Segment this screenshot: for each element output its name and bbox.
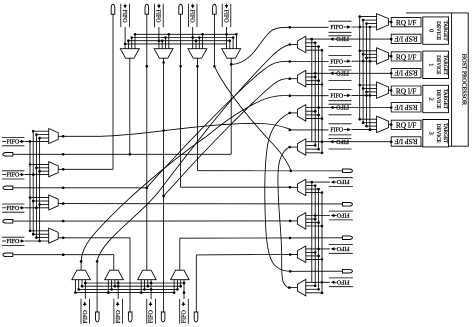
right mux Q2 (4:1, left) xyxy=(297,246,305,263)
right port 1 request FIFO (rotated) xyxy=(329,210,353,212)
bottom mux B3 (4:1, up) xyxy=(171,270,190,280)
FIFO R3 output wire to RQ mux xyxy=(352,129,377,131)
host processor box xyxy=(452,13,469,146)
svg-text:1: 1 xyxy=(428,63,435,66)
svg-text:RQ I/F: RQ I/F xyxy=(396,87,416,96)
net row: left mux L3 to bottom pin1 xyxy=(58,237,130,239)
svg-text:FIFO: FIFO xyxy=(335,69,349,75)
net row: left pin4 to bottom mux B1 (corner) xyxy=(13,254,114,256)
curve: top pin4 branch to right pin0 row xyxy=(213,14,215,66)
net: top pin1 to left mux L1 (row y169.3) xyxy=(112,14,114,169)
net row: bottom mux B3 to right pin2 xyxy=(180,237,290,239)
right mux Q3 (4:1, left) input taps xyxy=(306,285,315,287)
bottom mux B2 (4:1, up) xyxy=(138,270,157,280)
top mux 2 input taps xyxy=(195,41,197,49)
RQ mux 1 output wire xyxy=(389,55,392,57)
top port 3 connector pin xyxy=(213,4,217,14)
response mux M3 (4:1, left) input taps xyxy=(306,144,315,146)
svg-text:FIFO: FIFO xyxy=(335,138,349,144)
response FIFO S2 (FIFO left, rotated) xyxy=(329,103,352,105)
wire: bottom pin3 wire xyxy=(195,255,197,312)
svg-text:RSP I/F: RSP I/F xyxy=(395,137,418,146)
net row A: left pin1 / top mux M0 / top mux M3 / curve to FIFO R0 xyxy=(13,153,231,155)
RQ mux 1 input taps xyxy=(360,50,377,52)
svg-text:FIFO: FIFO xyxy=(222,10,228,24)
top mux M0 (4:1, down) xyxy=(120,49,139,59)
right port 1 request wire xyxy=(306,215,330,217)
FIFO B0 output wire xyxy=(84,280,86,299)
FIFO L0 output wire xyxy=(24,140,48,142)
FIFO B2 output wire xyxy=(150,280,152,299)
RQ mux 0 output wire xyxy=(389,21,392,23)
right mux Q0 (4:1, left) xyxy=(297,179,305,196)
svg-text:FIFO: FIFO xyxy=(155,10,161,24)
RSP I/F 2 output wire through FIFO S2 xyxy=(306,107,391,109)
FIFO T3 output wire xyxy=(226,27,228,49)
RQ mux 2 output wire xyxy=(389,89,392,91)
response FIFO S3 (FIFO left, rotated) xyxy=(329,137,352,139)
FIFO B1 (vertical) xyxy=(113,299,115,324)
FIFO R0 output wire to RQ mux xyxy=(352,26,377,28)
svg-text:HOST PROCESSOR: HOST PROCESSOR xyxy=(460,54,466,105)
svg-text:TARGET: TARGET xyxy=(442,123,448,144)
left mux L0 (4:1, right) xyxy=(49,129,59,144)
curve: response mux M2 to right pin3 xyxy=(265,113,290,271)
left mux L2 (4:1, right) xyxy=(49,195,59,210)
FIFO T1 output wire xyxy=(158,27,160,49)
right response lines (4) xyxy=(311,39,313,142)
left port 2 FIFO xyxy=(2,203,25,205)
RQ I/F box 2 xyxy=(391,86,421,95)
top mux 3 input taps xyxy=(229,41,231,49)
net: top mux M2 to right pin0 row xyxy=(196,58,198,171)
svg-text:TARGET: TARGET xyxy=(442,55,448,76)
right port 1 connector pin xyxy=(343,203,353,207)
curve: response mux M0 to bottom pin0 xyxy=(97,44,290,261)
RQ mux 3 output wire xyxy=(389,123,392,125)
FIFO T0 output wire xyxy=(124,27,126,49)
response mux M3 output wire xyxy=(290,146,298,148)
svg-text:DEVICE: DEVICE xyxy=(435,21,441,40)
lower-right request lines (4) xyxy=(311,182,313,282)
curve: bottom mux B0 to FIFO R2 input xyxy=(81,95,290,261)
left mux L1 (4:1, right) xyxy=(49,162,59,177)
svg-text:DEVICE: DEVICE xyxy=(435,89,441,108)
svg-text:RQ I/F: RQ I/F xyxy=(396,18,416,27)
svg-text:FIFO: FIFO xyxy=(336,178,350,184)
FIFO B0 (vertical) xyxy=(80,299,82,324)
left mux L3 (4:1, right) xyxy=(49,228,59,243)
left port 2 connector pin xyxy=(3,220,13,224)
svg-text:FIFO: FIFO xyxy=(336,212,350,218)
top mux M2 (4:1, down) xyxy=(188,49,207,59)
RQ mux 3 input taps xyxy=(360,118,377,120)
RSP I/F 1 output wire through FIFO S1 xyxy=(306,72,391,74)
svg-text:2: 2 xyxy=(428,97,435,100)
svg-text:FIFO: FIFO xyxy=(336,278,350,284)
RQ I/F box 0 xyxy=(391,18,421,27)
curve: M1 net to response mux M1 output xyxy=(164,79,290,196)
bottom port 1 connector pin xyxy=(128,312,132,322)
left mux L1 input taps xyxy=(30,163,49,165)
host processor bottom flange xyxy=(400,145,452,147)
net: top mux M1 / bottom pin2 vertical xyxy=(163,58,165,312)
RQ mux 2 input taps xyxy=(360,84,377,86)
wire: bottom mux B3 output riser (corner route) xyxy=(179,238,181,270)
top mux M3 (4:1, down) xyxy=(222,49,241,59)
left mux L2 input taps xyxy=(30,197,49,199)
curve: P2 net to FIFO R1 input xyxy=(147,61,290,188)
response mux M0 output wire xyxy=(290,44,298,46)
svg-text:RSP I/F: RSP I/F xyxy=(395,35,418,44)
request FIFO R3 (FIFO right) xyxy=(329,123,352,125)
top mux 1 input taps xyxy=(161,41,163,49)
right mux Q1 (4:1, left) input taps xyxy=(306,218,315,220)
RSP I/F box 1 xyxy=(391,68,421,77)
svg-text:FIFO: FIFO xyxy=(7,239,21,245)
RQ mux 3 (4:1, right) xyxy=(377,116,389,132)
wire: left pin2 row xyxy=(13,187,147,189)
target device 1 box xyxy=(423,51,449,78)
left mux L3 input taps xyxy=(30,230,49,232)
top mux 0 input taps xyxy=(127,41,129,49)
RSP I/F box 0 xyxy=(391,34,421,43)
net row: left mux L2 to right pin1 xyxy=(58,203,342,205)
svg-text:FIFO: FIFO xyxy=(336,245,350,251)
RQ mux 0 (4:1, right) xyxy=(377,14,389,30)
target device 3 box xyxy=(423,120,449,147)
RQ mux 0 input taps xyxy=(360,16,377,18)
svg-text:FIFO: FIFO xyxy=(83,310,89,324)
right port 3 connector pin xyxy=(343,269,353,273)
bottom port 3 connector pin xyxy=(194,312,198,322)
right port 0 request wire xyxy=(306,181,330,183)
svg-text:RQ I/F: RQ I/F xyxy=(396,52,416,61)
response FIFO S0 (FIFO left, rotated) xyxy=(329,35,352,37)
FIFO B2 (vertical) xyxy=(146,299,148,324)
svg-text:DEVICE: DEVICE xyxy=(435,55,441,74)
curve: net A to FIFO R0 input xyxy=(231,27,290,64)
svg-text:FIFO: FIFO xyxy=(330,25,344,31)
wire: bottom mux B1 output riser xyxy=(113,255,115,271)
FIFO R2 output wire to RQ mux xyxy=(352,94,377,96)
response mux M1 (4:1, left) input taps xyxy=(306,76,315,78)
response mux M1 (4:1, left) xyxy=(297,70,305,87)
right mux Q2 (4:1, left) input taps xyxy=(306,251,315,253)
FIFO B3 (vertical) xyxy=(179,299,181,324)
bottom mux B2 input taps xyxy=(147,280,149,287)
response FIFO S1 (FIFO left, rotated) xyxy=(329,69,352,71)
svg-text:FIFO: FIFO xyxy=(7,173,21,179)
top port 1 connector pin xyxy=(145,4,149,14)
FIFO T1 (vertical) xyxy=(154,4,156,27)
svg-text:FIFO: FIFO xyxy=(335,104,349,110)
RSP I/F 0 output wire through FIFO S0 xyxy=(306,38,391,40)
left port 3 connector pin xyxy=(3,253,13,257)
FIFO R1 input wire from crossbar xyxy=(290,61,329,63)
net row: bottom pin3 to right mux Q2 (corner route) xyxy=(196,253,297,256)
FIFO L1 output wire xyxy=(24,174,48,176)
RSP I/F box 3 xyxy=(391,137,421,146)
RQ I/F box 1 xyxy=(391,52,421,61)
svg-text:FIFO: FIFO xyxy=(330,94,344,100)
left port 1 connector pin xyxy=(3,186,13,190)
bottom port 0 connector pin xyxy=(96,312,100,322)
bottom port 2 connector pin xyxy=(161,312,165,322)
bottom mux B3 input taps xyxy=(180,280,182,287)
right mux Q3 (4:1, left) xyxy=(297,279,305,296)
right port 3 request FIFO (rotated) xyxy=(329,277,353,279)
RSP I/F 3 output wire through FIFO S3 xyxy=(306,141,391,143)
svg-text:FIFO: FIFO xyxy=(330,128,344,134)
FIFO R3 input wire from crossbar xyxy=(290,129,329,131)
wire: top mux M3 output stub xyxy=(230,58,232,154)
response mux M2 (4:1, left) xyxy=(297,105,305,122)
bottom mux B1 input taps xyxy=(114,280,116,287)
svg-text:FIFO: FIFO xyxy=(116,310,122,324)
response mux M3 (4:1, left) xyxy=(297,139,305,156)
curve: response mux M3 to right mux Q3 output xyxy=(278,147,290,288)
bottom mux B1 (4:1, up) xyxy=(105,270,124,280)
svg-text:DEVICE: DEVICE xyxy=(435,124,441,143)
FIFO L2 output wire xyxy=(24,207,48,209)
left port 3 FIFO xyxy=(2,236,25,238)
svg-text:FIFO: FIFO xyxy=(121,10,127,24)
target device 2 box xyxy=(423,85,449,112)
left port 0 FIFO xyxy=(2,137,25,139)
svg-text:TARGET: TARGET xyxy=(442,21,448,42)
wire: bottom pin0 wire xyxy=(96,261,98,312)
request FIFO R1 (FIFO right) xyxy=(329,54,352,56)
target device 0 box xyxy=(423,17,449,44)
svg-text:RSP I/F: RSP I/F xyxy=(395,103,418,112)
response mux M0 (4:1, left) xyxy=(297,36,305,53)
right port 0 request FIFO (rotated) xyxy=(329,177,353,179)
right mux Q1 (4:1, left) xyxy=(297,213,305,230)
svg-text:TARGET: TARGET xyxy=(442,89,448,110)
bottom mux B0 (4:1, up) xyxy=(72,270,91,280)
response mux M1 output wire xyxy=(290,78,298,80)
top request bus (4 lines) xyxy=(135,33,236,35)
RQ I/F box 3 xyxy=(391,120,421,129)
response mux M0 (4:1, left) input taps xyxy=(306,42,315,44)
FIFO T2 output wire xyxy=(192,27,194,49)
svg-text:FIFO: FIFO xyxy=(335,35,349,41)
svg-text:FIFO: FIFO xyxy=(7,206,21,212)
svg-text:RSP I/F: RSP I/F xyxy=(395,69,418,78)
FIFO T0 (vertical) xyxy=(120,4,122,27)
left port 1 FIFO xyxy=(2,170,25,172)
right port 3 request wire xyxy=(306,281,330,283)
top port 0 connector pin xyxy=(111,4,115,14)
svg-text:FIFO: FIFO xyxy=(189,10,195,24)
wire: bottom mux B0 output stub xyxy=(80,261,82,270)
right port 0 connector pin xyxy=(343,169,353,173)
curve: left mux L0 to FIFO R3 input (through M1 tap) xyxy=(58,135,100,137)
FIFO R0 input wire from crossbar xyxy=(290,26,329,28)
wire: top mux M0 output xyxy=(129,58,131,154)
right port 2 connector pin xyxy=(343,236,353,240)
FIFO R1 output wire to RQ mux xyxy=(352,60,377,62)
net: top pin2 / bottom mux B2 / left pin2 xyxy=(146,14,148,270)
net: top pin3 to right mux Q0 output row xyxy=(180,14,182,187)
FIFO T3 (vertical) xyxy=(221,4,223,27)
bottom mux B0 input taps xyxy=(81,280,83,287)
svg-text:FIFO: FIFO xyxy=(182,310,188,324)
host processor top flange xyxy=(406,12,452,14)
right request lines (4) xyxy=(359,17,361,120)
svg-text:RQ I/F: RQ I/F xyxy=(396,121,416,130)
left mux L0 input taps xyxy=(33,130,49,132)
svg-text:FIFO: FIFO xyxy=(7,140,21,146)
right mux Q0 (4:1, left) input taps xyxy=(306,185,315,187)
FIFO R2 input wire from crossbar xyxy=(290,95,329,97)
response mux M2 output wire xyxy=(290,112,298,114)
net row: left pin3 to right mux Q1 output xyxy=(13,220,297,222)
FIFO B3 output wire xyxy=(183,280,185,299)
response mux M2 (4:1, left) input taps xyxy=(306,110,315,112)
RQ mux 1 (4:1, right) xyxy=(377,48,389,64)
request FIFO R0 (FIFO right) xyxy=(329,20,352,22)
svg-text:FIFO: FIFO xyxy=(149,310,155,324)
RSP I/F box 2 xyxy=(391,103,421,112)
FIFO B1 output wire xyxy=(117,280,119,299)
bottom request bus (4 lines) xyxy=(85,282,185,284)
RQ mux 2 (4:1, right) xyxy=(377,82,389,98)
FIFO L3 output wire xyxy=(24,240,48,242)
top port 2 connector pin xyxy=(179,4,183,14)
right port 2 request wire xyxy=(306,248,330,250)
left port 0 connector pin xyxy=(3,153,13,157)
FIFO T2 (vertical) xyxy=(187,4,189,27)
request FIFO R2 (FIFO right) xyxy=(329,89,352,91)
svg-text:FIFO: FIFO xyxy=(330,59,344,65)
left request bus (4 lines) xyxy=(29,141,31,230)
right port 2 request FIFO (rotated) xyxy=(329,244,353,246)
top mux M1 (4:1, down) xyxy=(154,49,173,59)
